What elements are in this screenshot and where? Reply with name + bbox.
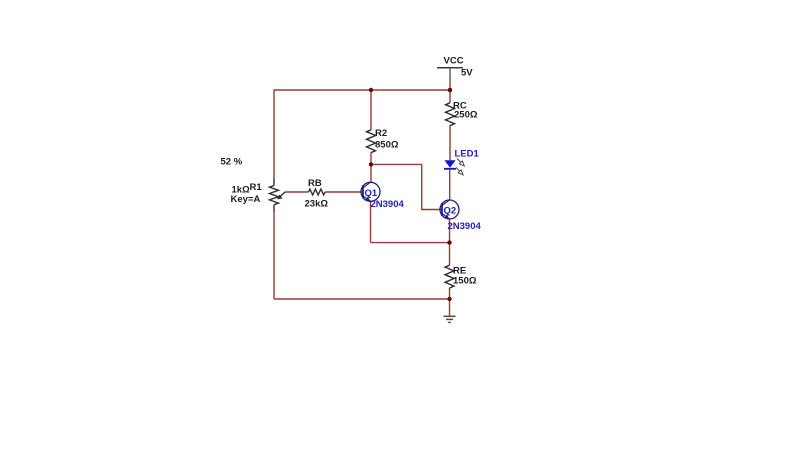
label R1 — [250, 182, 263, 193]
label RE value 150Ω — [453, 276, 477, 287]
wire top rail from pot column to VCC column — [274, 89, 450, 91]
label Q2 — [444, 206, 457, 217]
svg-text:5V: 5V — [461, 68, 473, 79]
VCC power symbol — [437, 68, 463, 76]
junction at emitter link and Q2 emitter — [447, 240, 451, 244]
svg-text:23kΩ: 23kΩ — [305, 198, 329, 209]
label Q2 part 2N3904 — [448, 221, 482, 232]
label Q1 — [365, 188, 378, 199]
label LED1 — [455, 148, 480, 159]
label R2 value 850Ω — [375, 140, 399, 151]
wire rail down to RC top — [449, 90, 451, 103]
svg-text:Q2: Q2 — [444, 206, 457, 217]
label R1 Key=A — [231, 194, 261, 205]
ground — [444, 316, 456, 322]
label RB value 23kΩ — [305, 198, 329, 209]
svg-text:R1: R1 — [250, 182, 263, 193]
wire Q2 emitter down to node — [449, 219, 451, 242]
wire RB right lead to Q1 base — [325, 191, 361, 193]
wire RC bottom to LED anode — [449, 125, 451, 160]
wire VCC stem to rail junction — [449, 76, 451, 91]
junction node B below R2 — [369, 162, 373, 166]
wire left column upper (rail down to potentiometer) — [273, 90, 275, 179]
svg-text:850Ω: 850Ω — [375, 140, 399, 151]
svg-text:2N3904: 2N3904 — [448, 221, 482, 232]
wire RE bottom to ground node — [449, 288, 451, 299]
label RC value 250Ω — [454, 110, 478, 121]
wire rail down to R2 top — [370, 90, 372, 130]
label RB — [308, 178, 322, 189]
svg-text:2N3904: 2N3904 — [371, 199, 405, 210]
wire Q1 emitter across to Q2 emitter node — [371, 242, 450, 244]
label RC — [453, 101, 467, 112]
label VCC — [444, 56, 464, 67]
svg-text:52 %: 52 % — [221, 157, 243, 168]
wire LED cathode to Q2 collector — [449, 170, 451, 200]
wire ground stem — [449, 299, 451, 316]
wire left column lower (potentiometer down to bottom rail) — [273, 212, 275, 299]
junction at VCC rail and RC column — [448, 88, 453, 93]
wire R2 bottom to node B junction — [370, 152, 372, 164]
label VCC value 5V — [461, 68, 473, 79]
transistor Q1 — [361, 182, 380, 201]
svg-text:R2: R2 — [375, 128, 387, 139]
junction at rail and R2 column — [369, 88, 373, 92]
wire node B down to Q1 collector — [370, 164, 372, 182]
resistor RC — [446, 103, 455, 126]
label R1 value 1kΩ — [232, 185, 251, 196]
resistor RE — [445, 265, 454, 288]
svg-text:250Ω: 250Ω — [454, 110, 478, 121]
LED LED1 — [444, 159, 464, 175]
svg-text:150Ω: 150Ω — [453, 276, 477, 287]
transistor Q2 — [440, 200, 459, 219]
wire node B to Q2 base (L-shaped) — [371, 164, 440, 209]
svg-text:LED1: LED1 — [455, 148, 480, 159]
svg-text:VCC: VCC — [444, 56, 464, 67]
label RE — [453, 266, 466, 277]
label Q1 part 2N3904 — [371, 199, 405, 210]
label 52 % (pot setting) — [221, 157, 243, 168]
resistor R2 — [367, 130, 376, 153]
potentiometer R1 — [270, 178, 286, 212]
wire emitter node down to RE top — [449, 243, 451, 266]
junction at bottom rail and ground — [447, 297, 451, 301]
resistor RB — [309, 189, 326, 195]
wire bottom rail — [274, 298, 450, 300]
svg-text:Key=A: Key=A — [231, 194, 261, 205]
wire Q1 emitter down — [370, 201, 372, 242]
label R2 — [375, 128, 387, 139]
wire pot wiper to RB left lead — [285, 191, 309, 193]
svg-text:Q1: Q1 — [365, 188, 378, 199]
svg-text:RB: RB — [308, 178, 322, 189]
